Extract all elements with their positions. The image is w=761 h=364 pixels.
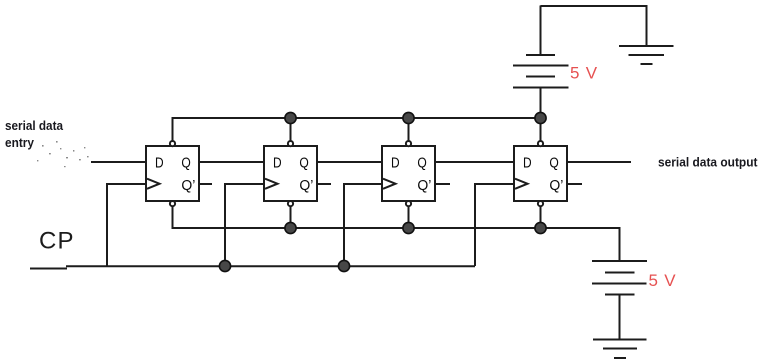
wire preset drop U3 — [408, 118, 410, 141]
svg-text:Q’: Q’ — [299, 177, 313, 194]
U2 clear bubble — [288, 201, 293, 206]
junction clear bus at U2 — [285, 222, 296, 233]
U4 preset bubble — [538, 141, 543, 146]
label serial data entry — [5, 119, 64, 150]
svg-text:CP: CP — [39, 228, 75, 255]
wire clear bus to battery V2 — [619, 227, 621, 261]
svg-text:Q: Q — [549, 155, 558, 172]
battery V1 plates — [513, 55, 569, 88]
svg-text:Q: Q — [299, 155, 308, 172]
svg-text:Q’: Q’ — [181, 177, 195, 194]
battery V1 top wire — [540, 6, 542, 56]
wire preset drop U2 — [290, 118, 292, 141]
svg-text:Q: Q — [417, 155, 426, 172]
junction clear bus at U3 — [403, 222, 414, 233]
svg-text:5 V: 5 V — [649, 271, 677, 290]
wire Q1 to D2 — [199, 161, 264, 163]
U3 clear bubble — [406, 201, 411, 206]
wire clock riser U4 — [475, 184, 514, 266]
flip-flop U4 box — [514, 146, 567, 201]
wire Q4 serial data output — [567, 161, 631, 163]
svg-text:5 V: 5 V — [570, 64, 598, 83]
wire Q3' stub — [435, 183, 450, 185]
svg-text:entry: entry — [5, 136, 34, 150]
wire clear drop U2 — [290, 206, 292, 228]
wire Q4' stub — [567, 183, 582, 185]
junction CP at U3 riser — [338, 260, 349, 271]
wire clear drop U4 — [540, 206, 542, 228]
wire Q2 to D3 — [317, 161, 382, 163]
wire serial data entry to D of U1 — [91, 161, 146, 163]
svg-text:D: D — [273, 155, 282, 172]
wire V1 to ground jumper — [541, 6, 647, 46]
wire clear bus — [173, 206, 620, 228]
junction preset bus at U4 — [535, 112, 546, 123]
svg-text:D: D — [391, 155, 400, 172]
junction preset bus at U3 — [403, 112, 414, 123]
U4 clear bubble — [538, 201, 543, 206]
svg-text:Q: Q — [181, 155, 190, 172]
svg-text:Q’: Q’ — [549, 177, 563, 194]
U1 clock triangle — [147, 179, 160, 189]
wire clock riser U1 — [107, 184, 146, 266]
svg-text:D: D — [155, 155, 164, 172]
wire preset bus — [173, 118, 541, 141]
junction clear bus at U4 — [535, 222, 546, 233]
ground GND1 — [619, 46, 674, 64]
U1 clear bubble — [170, 201, 175, 206]
flip-flop U1 box — [146, 146, 199, 201]
wire clear drop U3 — [408, 206, 410, 228]
U2 preset bubble — [288, 141, 293, 146]
U1 preset bubble — [170, 141, 175, 146]
battery V2 plates — [592, 261, 647, 295]
junction CP at U2 riser — [219, 260, 230, 271]
wire Q2' stub — [317, 183, 331, 185]
U3 preset bubble — [406, 141, 411, 146]
wire preset drop U4 and battery V1 riser — [540, 88, 542, 141]
wire V2 to ground GND2 — [619, 295, 621, 340]
wire Q3 to D4 — [435, 161, 514, 163]
watermark specks — [37, 141, 89, 167]
wire Q1' stub — [199, 183, 212, 185]
junction preset bus at U2 — [285, 112, 296, 123]
svg-text:Q’: Q’ — [417, 177, 431, 194]
wire clock riser U3 — [344, 184, 382, 266]
U4 clock triangle — [515, 179, 528, 189]
svg-text:serial data: serial data — [5, 119, 64, 133]
wire CP stub left — [30, 268, 67, 270]
flip-flop U2 box — [264, 146, 317, 201]
svg-text:serial data output: serial data output — [658, 156, 758, 170]
U2 clock triangle — [265, 179, 278, 189]
wire clock riser U2 — [225, 184, 264, 266]
U3 clock triangle — [383, 179, 396, 189]
ground GND2 — [593, 340, 647, 359]
flip-flop U3 box — [382, 146, 435, 201]
wire CP line — [66, 265, 475, 267]
svg-text:D: D — [523, 155, 532, 172]
